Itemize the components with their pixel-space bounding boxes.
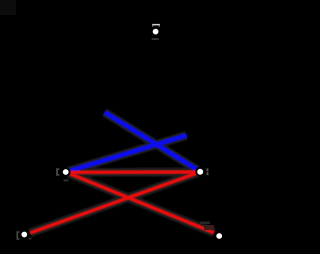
halo edge C-D xyxy=(30,172,200,233)
label remnant above-left of vertex E xyxy=(200,222,214,231)
faint corner artifact xyxy=(0,0,16,15)
red edge B-C xyxy=(66,171,201,174)
vertex D xyxy=(20,231,28,239)
vertex A xyxy=(152,28,160,36)
vertex B xyxy=(62,168,70,176)
label remnant left of vertex B xyxy=(56,168,59,175)
label remnant left of vertex D xyxy=(17,231,20,239)
red edge B-E xyxy=(66,172,214,233)
vertex E xyxy=(215,232,223,240)
blue edge V2-B xyxy=(66,135,187,172)
halo edge V1-C xyxy=(105,112,201,171)
blue edge V1-C xyxy=(105,112,201,171)
red edge C-D xyxy=(30,172,200,233)
halo edge B-C xyxy=(66,168,201,177)
halo edge B-E xyxy=(66,172,214,233)
label remnant above vertex A xyxy=(152,24,160,27)
vertex C xyxy=(196,168,204,176)
label remnant right of vertex D xyxy=(29,238,32,240)
label remnant below vertex B xyxy=(64,179,69,181)
label remnant below vertex A xyxy=(152,38,159,40)
halo edge V2-B xyxy=(66,135,187,172)
label remnant right of vertex C xyxy=(207,168,209,175)
